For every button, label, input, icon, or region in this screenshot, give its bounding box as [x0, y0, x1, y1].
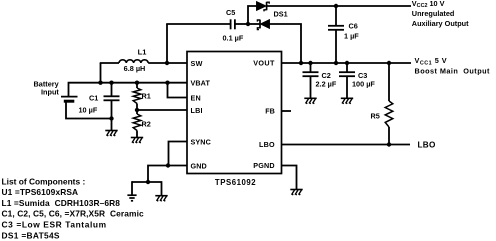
capacitor C3: [346, 63, 348, 72]
svg-text:EN: EN: [191, 93, 201, 102]
svg-text:100 µF: 100 µF: [352, 80, 375, 89]
op-amp U1 TPS61092 box: [187, 52, 282, 174]
node junction ground split: [146, 180, 150, 184]
wire VOUT rail: [282, 62, 412, 64]
svg-text:C3: C3: [358, 71, 367, 80]
wire R2 bottom lead: [136, 131, 138, 138]
capacitor C2: [310, 63, 312, 72]
svg-text:SYNC: SYNC: [191, 137, 211, 146]
svg-text:TPS61092: TPS61092: [215, 178, 256, 187]
node junction VBAT/C1: [109, 81, 113, 85]
svg-text:VBAT: VBAT: [191, 78, 211, 87]
wire L1 to SW pin: [148, 62, 187, 64]
svg-text:DS1 =BAT54S: DS1 =BAT54S: [2, 231, 60, 241]
svg-text:DS1: DS1: [274, 10, 288, 19]
svg-text:SW: SW: [191, 59, 203, 68]
node junction C5/DS1: [246, 22, 250, 26]
ground chassis below C2: [304, 97, 316, 99]
resistor R5: [388, 63, 390, 101]
svg-text:VOUT: VOUT: [253, 59, 275, 68]
svg-text:U1 =TPS6109xRSA: U1 =TPS6109xRSA: [2, 187, 79, 197]
resistor R2: [136, 110, 138, 114]
node junction R1/R2/LBI: [135, 108, 139, 112]
svg-text:R1: R1: [142, 92, 151, 101]
wire R1 bottom to LBI node: [136, 104, 138, 111]
svg-text:VCC1 5 V: VCC1 5 V: [415, 56, 448, 66]
battery B1 Battery Input: [61, 96, 78, 98]
ground chassis below R2: [131, 137, 143, 139]
svg-text:VCC2 10 V: VCC2 10 V: [412, 0, 445, 9]
ground earth symbol: [127, 194, 136, 196]
wire battery-input rail to VBAT pin: [69, 83, 188, 97]
ground chassis below C1: [105, 130, 117, 132]
svg-text:L1: L1: [138, 48, 147, 57]
node junction R5/LBO: [387, 142, 391, 146]
svg-text:10 µF: 10 µF: [79, 105, 98, 114]
wire C1 top lead: [111, 83, 113, 96]
node junction VOUT/C2: [308, 61, 312, 65]
svg-text:0.1 µF: 0.1 µF: [223, 34, 244, 43]
svg-text:C1, C2, C5, C6, =X7R,X5R Cera: C1, C2, C5, C6, =X7R,X5R Ceramic: [2, 209, 144, 219]
wire ground net horizontal: [132, 181, 162, 183]
svg-text:PGND: PGND: [253, 161, 275, 170]
svg-text:Auxiliary Output: Auxiliary Output: [412, 19, 469, 28]
svg-text:Boost Main Output: Boost Main Output: [415, 67, 491, 76]
svg-text:LBI: LBI: [191, 106, 203, 115]
wire GND pin to ground net: [168, 165, 187, 167]
wire to earth ground: [131, 181, 133, 195]
node junction C6/VOUT rail: [334, 61, 338, 65]
node junction VBAT/R1: [135, 81, 139, 85]
capacitor C1: [104, 95, 120, 97]
node junction Vcc2/C6: [334, 4, 338, 8]
ground chassis below C3: [341, 97, 353, 99]
wire LBO line: [282, 144, 411, 146]
svg-text:FB: FB: [265, 107, 275, 116]
node junction SYNC/GND: [166, 163, 170, 167]
svg-text:LBO: LBO: [259, 140, 275, 149]
svg-text:1 µF: 1 µF: [344, 31, 359, 40]
ground chassis below PGND: [290, 189, 302, 191]
node junction VOUT/C3: [345, 61, 349, 65]
ground chassis right of earth: [155, 195, 167, 197]
node junction VBAT/EN: [165, 81, 169, 85]
capacitor C6: [335, 6, 337, 26]
wire SYNC to GND net: [169, 142, 188, 166]
svg-text:R5: R5: [371, 111, 380, 120]
wire R1 top lead: [136, 83, 138, 88]
node junction VOUT/R5: [387, 61, 391, 65]
svg-text:2.2 µF: 2.2 µF: [316, 80, 337, 89]
wire SW node up to C5: [166, 24, 168, 63]
wire L1 left lead: [100, 62, 119, 64]
svg-text:LBO: LBO: [418, 141, 437, 150]
wire VBAT junction down to EN pin: [168, 83, 188, 98]
wire FB stub: [282, 110, 292, 112]
wire DS1 bottom anode down to VOUT rail: [270, 24, 302, 63]
wire C5 left lead: [166, 23, 230, 25]
node junction DS1/VOUT rail: [299, 61, 303, 65]
svg-text:L1 =Sumida CDRH103R–6R8: L1 =Sumida CDRH103R–6R8: [2, 198, 121, 208]
svg-text:C3 =Low ESR Tantalum: C3 =Low ESR Tantalum: [2, 219, 107, 229]
svg-text:6.8 µH: 6.8 µH: [124, 64, 146, 73]
node junction SW/C5: [165, 61, 169, 65]
svg-text:Unregulated: Unregulated: [412, 9, 455, 18]
svg-text:GND: GND: [191, 161, 207, 170]
svg-text:C5: C5: [226, 8, 235, 17]
diode DS1 bottom (cathode left): [248, 23, 260, 25]
svg-text:List of Components :: List of Components :: [2, 177, 86, 187]
diode DS1 top (anode left): [257, 2, 267, 11]
node junction C1/battery return: [109, 116, 113, 120]
svg-text:Input: Input: [41, 88, 59, 97]
wire up to DS1 top diode: [248, 6, 257, 24]
svg-text:C2: C2: [322, 71, 331, 80]
wire to chassis ground: [161, 181, 163, 195]
capacitor C5: [230, 19, 232, 29]
wire VBAT rail up to L1: [100, 63, 102, 83]
resistor R1: [133, 88, 141, 104]
svg-text:C1: C1: [89, 93, 98, 102]
wire DS1 top cathode to Vcc2 rail: [267, 5, 411, 7]
svg-text:R2: R2: [142, 120, 151, 129]
inductor L1: [119, 60, 148, 63]
wire LBI line: [137, 109, 187, 111]
wire C1 bottom to ground: [111, 119, 113, 131]
wire PGND to ground: [282, 166, 297, 190]
svg-text:C6: C6: [349, 21, 358, 30]
node junction VBAT/L1: [98, 81, 102, 85]
